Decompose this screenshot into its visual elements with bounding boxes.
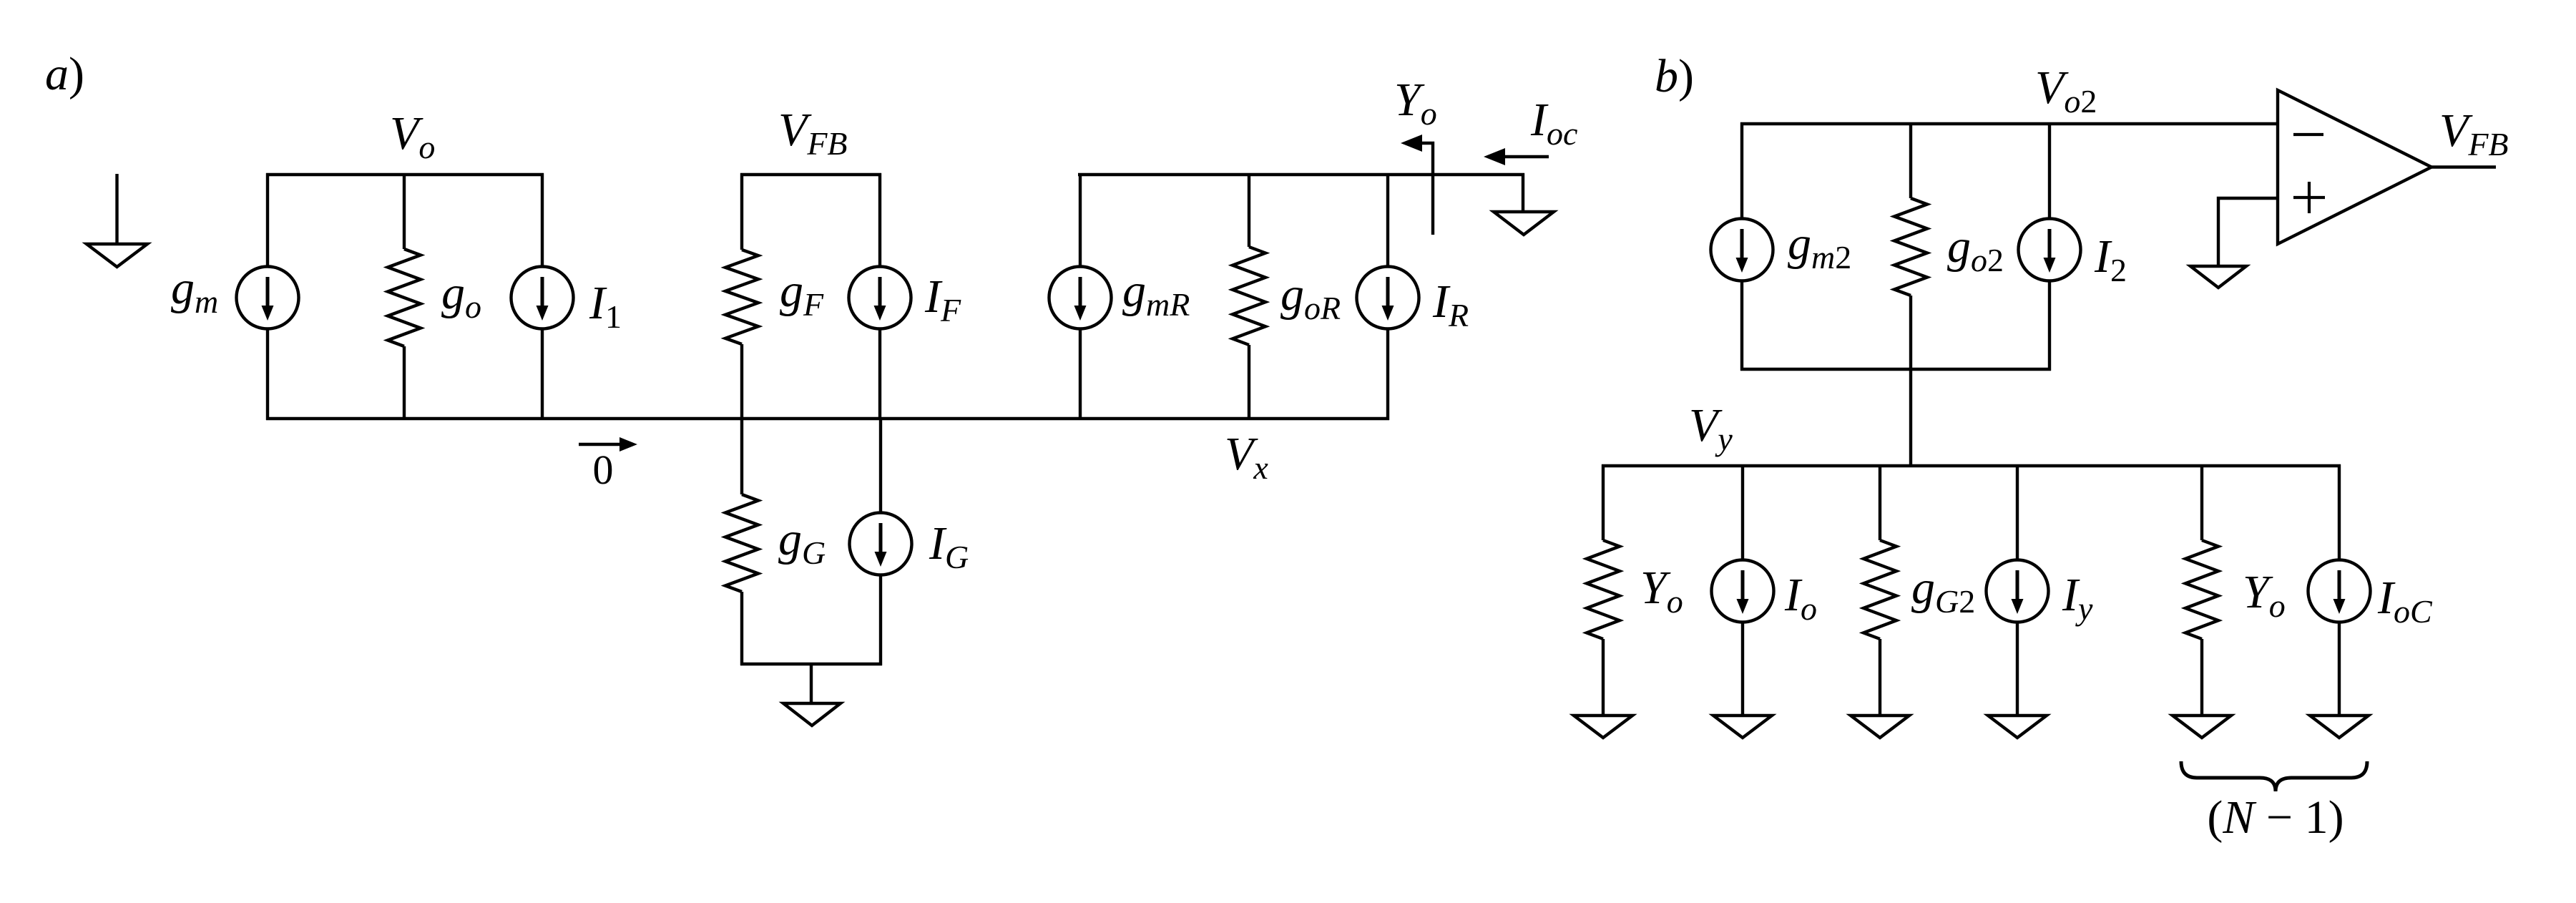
wire top bus node Vo2 [1740, 122, 2278, 125]
wire top bus node VFB [740, 173, 881, 176]
resistor go2 [1894, 198, 1927, 296]
svg-text:IoC: IoC [2377, 572, 2433, 630]
wire I1 top [541, 173, 544, 267]
svg-text:go: go [441, 267, 481, 325]
svg-text:Vx: Vx [1225, 428, 1268, 486]
wire Iy bottom [2016, 622, 2019, 717]
wire gm top [266, 173, 269, 267]
resistor goR [1233, 247, 1265, 345]
svg-text:Vo2: Vo2 [2035, 62, 2097, 119]
resistor gG2 [1864, 540, 1896, 639]
brace (N-1) group [2181, 761, 2367, 791]
wire Iy top [2016, 464, 2019, 561]
current source IoC [2308, 560, 2371, 623]
wire top-right down to ground [1522, 173, 1524, 213]
wire Io bottom [1741, 622, 1744, 717]
ground (Iy) [1988, 716, 2047, 738]
wire IF bottom [878, 328, 881, 420]
resistor go [388, 249, 421, 346]
resistor gF [725, 250, 758, 344]
svg-text:IG: IG [929, 517, 969, 575]
svg-text:(N − 1): (N − 1) [2207, 791, 2344, 844]
svg-text:IR: IR [1432, 275, 1469, 333]
current source gm2 [1711, 219, 1773, 281]
wire gmR top [1079, 173, 1082, 267]
current source IR [1357, 267, 1419, 329]
wire gG top [740, 417, 743, 494]
ground (Io) [1713, 716, 1772, 738]
wire IG top [879, 417, 882, 513]
wire top bus node Vo [266, 173, 544, 176]
wire gG2 top [1879, 464, 1881, 540]
ground (gG2) [1851, 716, 1909, 738]
svg-text:gm: gm [171, 262, 218, 320]
svg-text:a): a) [45, 48, 84, 100]
ground (Yo second) [2173, 716, 2231, 738]
wire Yo second bottom [2200, 639, 2203, 717]
resistor Yo (second) [2185, 540, 2218, 639]
ground (IoC) [2310, 716, 2369, 738]
probe arrow Yo [1401, 135, 1433, 235]
svg-text:IF: IF [924, 270, 961, 328]
wire op-amp + input [2218, 198, 2278, 268]
svg-text:0: 0 [593, 446, 614, 493]
wire top bus right cell [1078, 173, 1524, 176]
wire IR top [1386, 173, 1389, 267]
wire gm2 top [1740, 122, 1743, 219]
wire IR bottom [1386, 328, 1389, 420]
svg-text:Vy: Vy [1689, 399, 1733, 457]
wire gF top [740, 173, 743, 250]
svg-text:gF: gF [780, 265, 824, 323]
current source gm [237, 267, 299, 329]
svg-text:gm2: gm2 [1788, 218, 1851, 275]
current source IF [849, 267, 911, 329]
svg-text:b): b) [1655, 50, 1694, 102]
wire bus node Vy [1602, 464, 2341, 467]
wire IF top [878, 173, 881, 267]
wire gF bottom [740, 344, 743, 420]
wire gmR bottom [1079, 328, 1082, 420]
svg-text:Vo: Vo [390, 107, 435, 165]
wire IG bottom [879, 575, 882, 665]
wire IoC top [2338, 464, 2341, 561]
svg-text:VFB: VFB [2439, 104, 2509, 162]
svg-text:go2: go2 [1947, 220, 2004, 278]
svg-text:gG2: gG2 [1911, 562, 1975, 620]
svg-text:Io: Io [1784, 569, 1817, 627]
ground (reference arrow left of circuit a) [87, 174, 147, 267]
svg-text:gmR: gmR [1122, 265, 1190, 323]
svg-text:Yo: Yo [2243, 566, 2286, 624]
wire Yo second top [2200, 464, 2203, 540]
wire gm2 bottom [1740, 280, 1743, 371]
current source I2 [2019, 219, 2081, 281]
wire gG2 bottom [1879, 639, 1881, 717]
current source IG [850, 513, 912, 575]
wire bottom of gm2/go2/I2 cell [1740, 368, 2051, 371]
current source Io [1712, 560, 1774, 623]
op-amp U1 [2278, 90, 2431, 244]
wire I1 bottom [541, 328, 544, 420]
ground (op-amp + input) [2190, 266, 2246, 288]
wire gm bottom [266, 328, 269, 420]
wire I2 top [2048, 122, 2051, 219]
wire go bottom [403, 346, 406, 420]
op-amp non-inverting input marker [2293, 182, 2325, 213]
wire go2 down to node Vy [1909, 296, 1912, 467]
wire Yo first bottom [1602, 639, 1605, 717]
wire gG bottom [740, 592, 743, 665]
wire ground stem circuit a [810, 664, 813, 705]
svg-text:Yo: Yo [1640, 562, 1683, 620]
current arrow Ioc [1484, 148, 1549, 165]
ground (top right of circuit a) [1494, 212, 1554, 235]
wire goR bottom [1248, 345, 1250, 420]
wire Io top [1741, 464, 1744, 561]
wire goR top [1248, 173, 1250, 247]
svg-text:I1: I1 [589, 277, 622, 335]
current source gmR [1049, 267, 1112, 329]
wire I2 bottom [2048, 280, 2051, 371]
svg-text:I2: I2 [2094, 230, 2127, 288]
resistor Yo (first) [1587, 540, 1620, 639]
svg-text:gG: gG [778, 513, 826, 571]
wire IoC bottom [2338, 622, 2341, 717]
wire bottom of gG/IG cell [740, 663, 882, 665]
wire go top [403, 173, 406, 249]
resistor gG [725, 494, 758, 592]
wire go2 top [1909, 122, 1912, 198]
svg-text:goR: goR [1280, 268, 1341, 326]
svg-text:Ioc: Ioc [1530, 94, 1577, 152]
current source Iy [1987, 560, 2049, 623]
wire bottom bus node Vx [266, 417, 1389, 420]
current source I1 [511, 267, 574, 329]
wire op-amp output [2431, 165, 2496, 168]
svg-text:Yo: Yo [1394, 74, 1437, 132]
svg-text:Iy: Iy [2062, 569, 2093, 627]
wire Yo first top [1602, 464, 1605, 540]
svg-text:VFB: VFB [778, 104, 848, 162]
op-amp inverting input marker [2293, 133, 2323, 136]
ground (below gG/IG) [783, 703, 841, 726]
current arrow 0 [579, 437, 637, 451]
ground (Yo first) [1574, 716, 1632, 738]
